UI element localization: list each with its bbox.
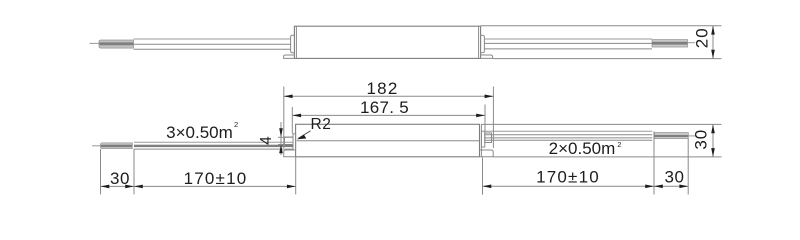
- dimension 182 extension lines: [283, 87, 285, 149]
- side view right stripped tip: [655, 133, 689, 139]
- dimension 30 right-side line with arrows: [712, 124, 714, 156]
- svg-text:R2: R2: [311, 116, 332, 133]
- side view left cable pin: [92, 145, 101, 147]
- svg-text:20: 20: [693, 27, 712, 48]
- svg-text:2×0.50m: 2×0.50m: [549, 139, 616, 158]
- svg-text:2: 2: [617, 140, 621, 149]
- top view left cable sheath (3 lines): [134, 38, 291, 40]
- top view left cable pin: [90, 42, 100, 44]
- label R2 leader: [299, 131, 311, 138]
- lower dimension extension lines right: [482, 157, 484, 194]
- top view right end cap: [481, 35, 485, 52]
- dimension 30 right-side extension lines: [481, 123, 722, 125]
- top view right stripped wire tip: [652, 40, 688, 47]
- dimension 4 line with arrows: [280, 122, 282, 155]
- svg-text:30: 30: [692, 129, 711, 150]
- side view left cable gland cap: [293, 134, 296, 150]
- svg-text:167. 5: 167. 5: [360, 98, 409, 117]
- dimension 4 extension lines: [278, 136, 293, 138]
- svg-text:30: 30: [110, 169, 130, 188]
- svg-text:30: 30: [665, 167, 685, 186]
- top view body inner left edge: [295, 26, 297, 58]
- side view body: [296, 124, 480, 157]
- side view left stripped tip: [101, 143, 133, 149]
- dimension 167.5 line with arrows: [292, 114, 485, 116]
- top view left mounting tab: [284, 55, 295, 58]
- top view right cable sheath (3 lines): [484, 38, 652, 40]
- svg-text:170±10: 170±10: [184, 169, 248, 188]
- svg-text:182: 182: [367, 79, 399, 98]
- dimension 182 line with arrows: [284, 95, 494, 97]
- dimension 30 bottom-right line with arrows: [654, 185, 688, 187]
- dimension 30 bottom-left line with arrows: [101, 185, 135, 187]
- side view left mounting tab: [284, 150, 296, 157]
- top view body: [294, 26, 480, 58]
- side view left gland step: [285, 137, 294, 145]
- svg-text:2: 2: [234, 120, 238, 129]
- side view body inner right edge: [480, 124, 482, 157]
- top view left end cap: [291, 35, 295, 52]
- svg-text:3×0.50m: 3×0.50m: [166, 123, 233, 142]
- side view right mounting tab: [480, 150, 494, 157]
- side view body seam line: [297, 140, 480, 142]
- side view right cable pin: [688, 135, 696, 137]
- dimension 20 extension lines: [481, 25, 722, 27]
- top view right cable pin: [688, 42, 696, 44]
- top view left stripped wire tip: [99, 40, 134, 48]
- side view right cable gland cap: [481, 131, 484, 147]
- svg-text:4: 4: [258, 136, 275, 145]
- lower dimension extension lines left: [100, 149, 102, 194]
- dimension 170+-10 left line with arrows: [134, 185, 296, 187]
- svg-text:170±10: 170±10: [536, 167, 600, 186]
- top view body inner right edge: [478, 26, 480, 58]
- side view left cable sheath: [134, 141, 293, 143]
- dimension 167.5 extension lines: [291, 107, 293, 134]
- side view right cable sheath (4 lines): [485, 130, 652, 132]
- top view right mounting tab: [481, 55, 493, 58]
- dimension 20 line with arrows: [712, 26, 714, 59]
- side view right gland step: [485, 133, 492, 143]
- dimension 170+-10 right line with arrows: [483, 185, 655, 187]
